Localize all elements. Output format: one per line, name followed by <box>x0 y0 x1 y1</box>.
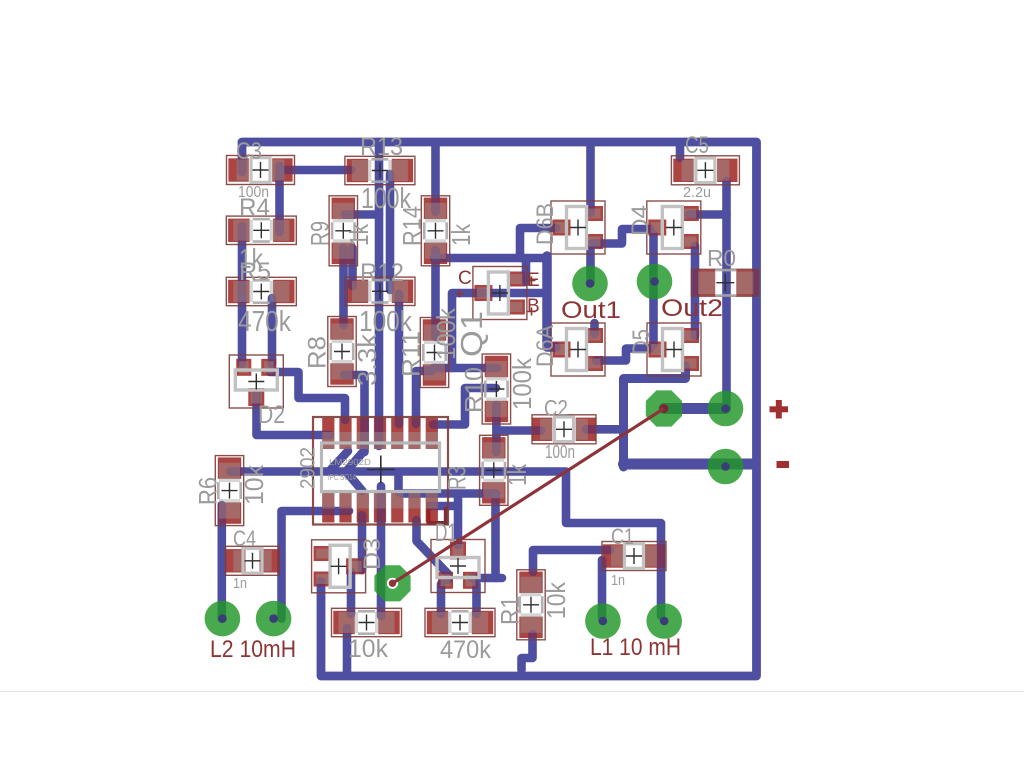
svg-text:D6A: D6A <box>532 325 559 367</box>
svg-text:1k: 1k <box>344 223 374 246</box>
svg-text:R12: R12 <box>360 259 404 287</box>
svg-text:R10: R10 <box>461 367 489 413</box>
svg-text:Out2: Out2 <box>661 295 723 322</box>
svg-text:470k: 470k <box>238 306 291 338</box>
svg-text:R0: R0 <box>707 245 736 271</box>
svg-text:R9: R9 <box>307 221 335 246</box>
svg-text:R14: R14 <box>399 206 427 246</box>
svg-text:10k: 10k <box>239 464 269 505</box>
svg-text:D3: D3 <box>359 538 386 570</box>
svg-text:B: B <box>527 296 540 317</box>
svg-text:L1 10 mH: L1 10 mH <box>590 634 681 661</box>
svg-text:C: C <box>458 268 472 289</box>
svg-text:D4: D4 <box>627 205 654 236</box>
svg-text:C4: C4 <box>233 526 256 551</box>
svg-text:C2: C2 <box>544 395 568 421</box>
svg-text:Q1: Q1 <box>454 311 489 357</box>
svg-text:10k: 10k <box>348 635 388 663</box>
svg-text:2902: 2902 <box>297 447 320 489</box>
svg-text:R11: R11 <box>398 331 426 377</box>
svg-text:D6B: D6B <box>532 203 559 245</box>
svg-text:L2 10mH: L2 10mH <box>210 636 296 663</box>
svg-text:Out1: Out1 <box>561 297 621 324</box>
svg-text:10k: 10k <box>541 581 571 619</box>
svg-text:R13: R13 <box>360 133 403 161</box>
svg-text:3.3k: 3.3k <box>352 333 382 386</box>
svg-text:R3: R3 <box>444 466 472 490</box>
svg-text:D5: D5 <box>628 329 655 355</box>
svg-text:C1: C1 <box>611 524 634 549</box>
svg-text:IPC SO14: IPC SO14 <box>328 473 356 482</box>
svg-text:2.2u: 2.2u <box>683 184 711 201</box>
svg-text:470k: 470k <box>440 636 491 664</box>
svg-text:R1: R1 <box>497 596 525 625</box>
svg-text:R4: R4 <box>239 194 270 222</box>
svg-text:100n: 100n <box>545 442 575 462</box>
svg-text:R5: R5 <box>239 258 271 286</box>
svg-text:1k: 1k <box>446 223 476 246</box>
svg-text:LM2902D: LM2902D <box>329 458 371 467</box>
svg-text:1n: 1n <box>233 575 247 592</box>
svg-text:R6: R6 <box>195 477 223 505</box>
svg-text:D2: D2 <box>258 401 285 429</box>
svg-text:D1: D1 <box>435 519 457 547</box>
svg-text:C3: C3 <box>236 138 262 165</box>
svg-text:1n: 1n <box>611 572 625 589</box>
svg-text:C5: C5 <box>685 132 709 159</box>
svg-text:1k: 1k <box>502 463 532 486</box>
svg-text:E: E <box>527 270 540 291</box>
svg-text:R8: R8 <box>304 336 332 369</box>
